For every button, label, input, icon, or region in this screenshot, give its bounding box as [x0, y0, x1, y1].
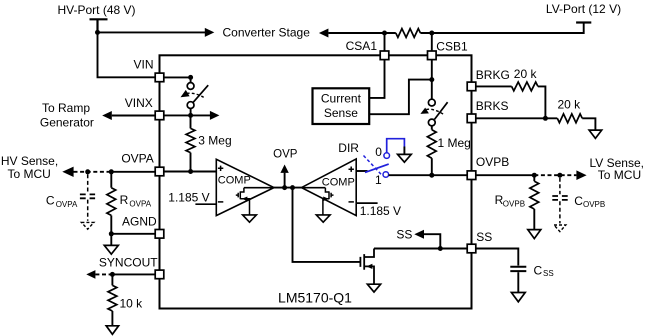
- node OVPA junction: [188, 169, 193, 174]
- arrow to Converter Stage (right): [205, 28, 215, 37]
- svg-text:20 k: 20 k: [558, 98, 582, 112]
- ground 10k: [106, 326, 118, 335]
- op-amp comparator B: [302, 159, 357, 216]
- node SYNCOUT junction: [110, 272, 115, 277]
- capacitor C_OVPB (dashed): [559, 178, 561, 195]
- transistor inside comparator B: [323, 188, 334, 215]
- svg-text:OVPA: OVPA: [121, 151, 153, 165]
- arrow to Converter Stage (left): [319, 29, 329, 38]
- svg-text:Converter Stage: Converter Stage: [223, 26, 311, 40]
- svg-text:To MCU: To MCU: [598, 168, 641, 182]
- wire OVPB dashed: [534, 174, 576, 176]
- svg-text:LV-Port (12 V): LV-Port (12 V): [546, 2, 621, 16]
- svg-text:20 k: 20 k: [514, 67, 538, 81]
- wire OVPA to comparator A: [164, 171, 216, 173]
- svg-text:1.185 V: 1.185 V: [360, 204, 401, 218]
- ground BRKS divider: [589, 130, 602, 138]
- wire VINX left: [112, 115, 155, 117]
- svg-text:OVPA: OVPA: [56, 200, 78, 209]
- svg-text:HV-Port (48 V): HV-Port (48 V): [57, 3, 135, 17]
- node HV junction: [95, 30, 100, 35]
- wire VINX right: [164, 114, 211, 116]
- svg-text:VIN: VIN: [133, 58, 153, 72]
- svg-text:1: 1: [375, 173, 382, 187]
- transistor inside comparator A: [236, 188, 250, 215]
- svg-text:SS: SS: [476, 230, 492, 244]
- op-amp comparator A: [216, 159, 274, 215]
- arrow HV Sense to MCU: [62, 167, 73, 177]
- ground SS clamp: [367, 284, 380, 292]
- ground AGND: [110, 234, 112, 246]
- arrow VINX right: [210, 111, 220, 120]
- node CSA1 top junction: [382, 31, 387, 36]
- pin OVPB: [467, 171, 476, 180]
- capacitor C_SS: [510, 267, 526, 271]
- node R_OVPB junction: [532, 173, 537, 178]
- node VIN-switch junction: [188, 75, 193, 80]
- OVP arrow: [284, 173, 286, 188]
- svg-text:OVPB: OVPB: [476, 155, 509, 169]
- pin BRKG: [467, 82, 476, 91]
- wire SS to C_SS: [476, 249, 519, 266]
- svg-text:R: R: [120, 193, 129, 207]
- svg-text:CSB1: CSB1: [436, 40, 468, 54]
- wire Current Sense to CSA1: [369, 60, 384, 98]
- svg-text:C: C: [534, 263, 543, 277]
- switch SW1 (VIN/VINX): [190, 77, 192, 82]
- wire CSA1 drop: [384, 33, 386, 51]
- arrow To Ramp Generator: [102, 111, 112, 120]
- svg-text:BRKS: BRKS: [476, 99, 509, 113]
- node C_OVPA junction: [85, 169, 90, 174]
- wire SS pin: [374, 248, 467, 250]
- ground C_SS: [511, 293, 525, 302]
- wire SYNCOUT solid: [112, 273, 155, 275]
- ground R_OVPB: [528, 230, 541, 239]
- svg-text:SS: SS: [543, 269, 554, 278]
- node CSB1 branch junction: [429, 77, 434, 82]
- node OVPB junction: [429, 173, 434, 178]
- wire HV down to VIN: [98, 32, 156, 77]
- svg-text:Current: Current: [321, 91, 362, 105]
- wire AGND: [111, 233, 155, 235]
- transistor SS clamp: [360, 249, 374, 284]
- svg-text:SS: SS: [396, 228, 412, 242]
- node OVP junction 1: [282, 185, 287, 190]
- arrow LV Sense to MCU: [576, 170, 586, 180]
- svg-text:1 Meg: 1 Meg: [438, 136, 471, 150]
- wire OVPB to R_OVPB: [476, 174, 535, 176]
- ground DIR: [403, 147, 405, 155]
- svg-text:10 k: 10 k: [120, 297, 144, 311]
- wire BRKG: [476, 85, 512, 87]
- capacitor C_OVPA (dashed): [87, 174, 89, 194]
- switch SW2 (CSB1/1 Meg): [428, 99, 435, 106]
- shunt resistor between CSA1 and CSB1: [396, 29, 421, 38]
- svg-text:AGND: AGND: [122, 214, 157, 228]
- pin OVPA: [155, 167, 164, 176]
- arrow SYNCOUT out: [86, 270, 95, 279]
- Current Sense block: [313, 88, 370, 124]
- ground comparator B: [316, 215, 330, 222]
- svg-text:0: 0: [375, 145, 382, 159]
- pin AGND: [155, 230, 164, 239]
- svg-text:DIR: DIR: [338, 141, 359, 155]
- pin CSA1: [380, 51, 389, 60]
- wire comparator B plus input: [356, 170, 367, 172]
- node R_OVPA junction: [109, 169, 114, 174]
- 1.185 V reference comparator B: [356, 202, 377, 204]
- wire BRKS: [476, 117, 558, 119]
- pin VIN: [155, 73, 164, 82]
- svg-text:Generator: Generator: [40, 115, 94, 129]
- pin VINX: [155, 111, 164, 120]
- svg-text:CSA1: CSA1: [346, 39, 378, 53]
- wire Current Sense to CSB1 branch: [369, 80, 432, 115]
- wire CSB1 drop: [431, 33, 433, 51]
- svg-text:OVPB: OVPB: [503, 200, 525, 209]
- resistor R_OVPA: [110, 172, 112, 188]
- node CSB1 top junction: [429, 31, 434, 36]
- wire OVP node down to SS clamp gate: [293, 188, 361, 262]
- svg-text:Sense: Sense: [324, 106, 358, 120]
- svg-text:C: C: [574, 194, 583, 208]
- pin SYNCOUT: [155, 270, 164, 279]
- wire OVPA dashed to MCU: [74, 171, 112, 173]
- node VINX junction: [188, 113, 193, 118]
- pin CSB1: [428, 51, 437, 60]
- HV-Port terminal: [90, 19, 108, 32]
- DIR switch selector (blue): [364, 139, 405, 178]
- resistor 3 Meg: [190, 115, 192, 128]
- node AGND junction: [109, 231, 114, 236]
- svg-text:1.185 V: 1.185 V: [168, 190, 209, 204]
- pin BRKS: [467, 114, 476, 123]
- LV-Port terminal: [576, 21, 591, 23]
- svg-text:VINX: VINX: [125, 96, 153, 110]
- wire converter arrow to shunt: [328, 32, 395, 34]
- wire VIN to switch SW1: [164, 76, 191, 78]
- wire OVPA left solid: [111, 171, 155, 173]
- svg-text:COMP: COMP: [218, 175, 251, 187]
- resistor 20 k BRKS: [557, 114, 582, 123]
- IC boundary LM5170-Q1: [160, 55, 472, 308]
- svg-text:BRKG: BRKG: [476, 68, 510, 82]
- node C_OVPB junction: [557, 173, 562, 178]
- wire DIR to OVPB: [389, 174, 468, 176]
- svg-text:OVPA: OVPA: [129, 200, 151, 209]
- svg-text:SYNCOUT: SYNCOUT: [99, 256, 158, 270]
- svg-text:COMP: COMP: [322, 176, 355, 188]
- wire HV to converter arrow: [98, 31, 206, 33]
- svg-text:OVPB: OVPB: [583, 200, 605, 209]
- resistor 1 Meg: [431, 126, 433, 130]
- wire shunt to LV-Port: [420, 23, 583, 34]
- svg-text:LM5170-Q1: LM5170-Q1: [278, 290, 352, 306]
- resistor 10 k: [111, 274, 113, 285]
- svg-text:To Ramp: To Ramp: [42, 101, 90, 115]
- svg-text:3 Meg: 3 Meg: [198, 133, 231, 147]
- node SS junction: [438, 246, 443, 251]
- node BRK junction: [543, 116, 548, 121]
- pin SS: [467, 244, 476, 253]
- wire SYNCOUT dashed: [95, 273, 112, 275]
- svg-text:HV Sense,: HV Sense,: [1, 154, 58, 168]
- resistor 20 k BRKG: [512, 82, 538, 91]
- svg-text:C: C: [46, 193, 55, 207]
- svg-text:OVP: OVP: [273, 149, 298, 161]
- resistor R_OVPB: [533, 175, 535, 181]
- node OVP junction 2: [290, 185, 295, 190]
- wire comparator outputs: [274, 187, 302, 189]
- ground comparator A: [243, 215, 257, 222]
- svg-text:To MCU: To MCU: [8, 167, 51, 181]
- wire CSB1 down to switch: [431, 60, 433, 100]
